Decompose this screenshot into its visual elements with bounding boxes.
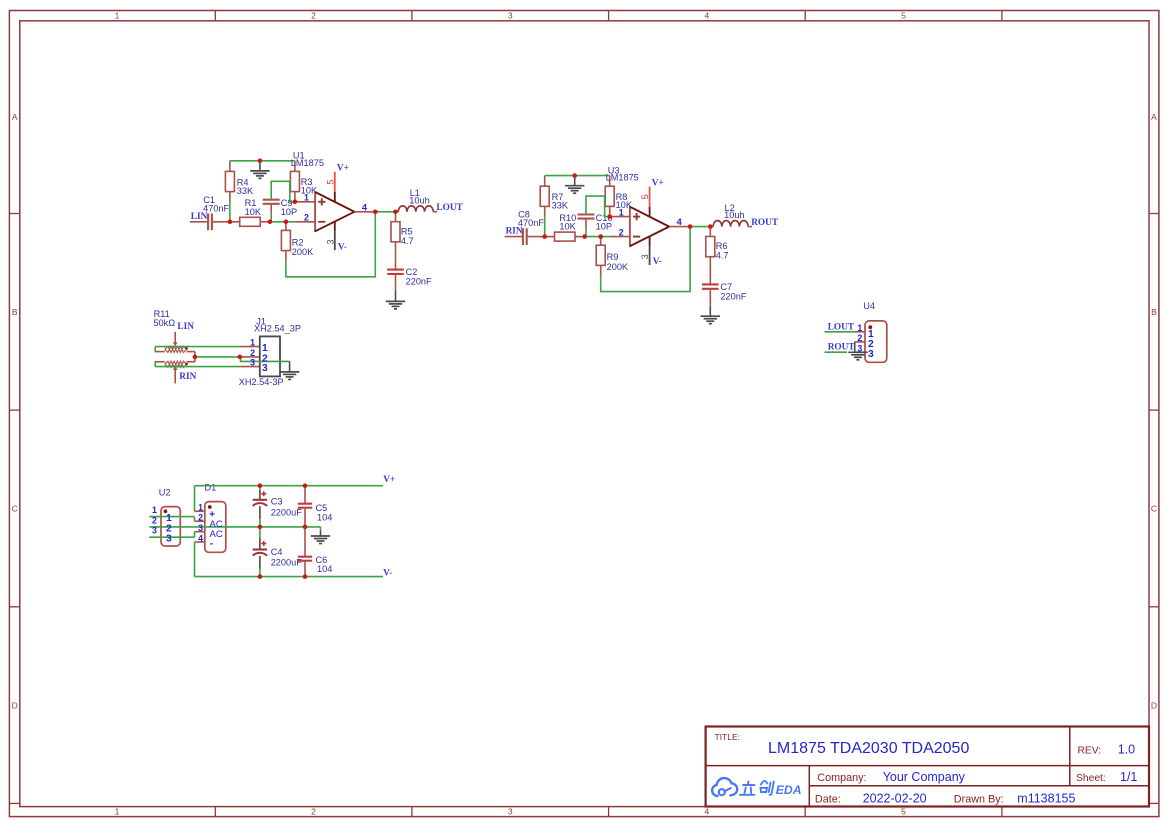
value 1.0 [1118,743,1135,757]
wire to ground [241,357,290,362]
svg-text:D: D [12,700,18,710]
junction [303,574,308,579]
svg-text:220nF: 220nF [406,277,432,287]
ground [311,531,330,544]
wire [229,202,231,222]
resistor R8 [605,176,633,217]
wire [259,527,261,550]
net label RIN [179,372,196,382]
svg-text:5: 5 [640,194,650,199]
svg-text:C: C [12,504,18,514]
svg-text:LOUT: LOUT [436,203,463,213]
bridge rectifier D1 [195,483,226,553]
junction [258,525,263,530]
op-amp U3 LM1875 [606,165,690,265]
pin number 2 [619,227,624,237]
wire [270,221,295,223]
connector U4 [855,301,887,362]
connector U2 [159,488,181,546]
wire [259,486,261,500]
capacitor C6 104 [298,527,333,577]
junction [373,210,378,215]
svg-text:V+: V+ [337,164,349,174]
pin number 3 [857,343,862,353]
wire [259,556,261,577]
junction [572,173,577,178]
wire [259,506,261,527]
svg-text:C2: C2 [406,267,418,277]
svg-text:3: 3 [166,534,172,545]
pin number 4 [362,202,368,212]
svg-text:50kΩ: 50kΩ [153,318,175,328]
logo text LiChuang EDA [740,781,802,797]
svg-text:Date:: Date: [815,794,841,806]
pin name 2 [868,339,874,350]
capacitor C7 [702,282,747,306]
pin name 1 [868,329,874,340]
pin number 1 [304,193,309,203]
net label V+ [383,475,395,485]
svg-text:2200uF: 2200uF [271,558,303,568]
wire top rail LIN [230,160,295,162]
junction [393,210,398,215]
net label ROUT [828,342,856,352]
svg-text:1: 1 [857,323,862,333]
svg-text:LOUT: LOUT [828,322,855,332]
pin number 3 [152,526,157,536]
svg-text:5: 5 [901,807,906,817]
net label V+ [652,178,664,188]
resistor R9 [596,237,629,277]
pin name 1 [262,343,268,354]
svg-text:200K: 200K [292,247,314,257]
pin number 4 [198,533,203,543]
svg-text:A: A [1151,112,1157,122]
svg-text:3: 3 [857,343,862,353]
pin name 1 [166,513,172,524]
svg-text:C3: C3 [271,496,283,506]
wire [270,214,272,222]
pin number 3 [198,523,203,533]
svg-text:Drawn By:: Drawn By: [954,794,1004,806]
junction [258,483,263,488]
net label LIN [191,212,208,222]
svg-text:1: 1 [198,503,203,513]
junction [284,220,289,225]
net label LIN [177,322,194,332]
junction [708,224,713,229]
net label V- [653,257,662,267]
pin number 2 [857,333,862,343]
svg-text:10K: 10K [245,207,262,217]
svg-text:LM1875: LM1875 [606,173,639,183]
svg-text:R9: R9 [607,252,619,262]
junction [258,574,263,579]
svg-text:5: 5 [901,11,906,21]
svg-text:RIN: RIN [179,372,196,382]
svg-text:104: 104 [317,512,332,522]
svg-text:m1138155: m1138155 [1017,792,1075,806]
svg-text:2: 2 [304,213,309,223]
net label V+ [337,164,349,174]
pin name - [210,538,214,549]
wire D1 plus to V+ rail [194,486,196,512]
svg-text:1.0: 1.0 [1118,743,1135,757]
junction [303,525,308,530]
svg-text:2200uF: 2200uF [271,508,303,518]
svg-text:4: 4 [362,202,368,212]
wire top rail RIN [545,175,610,177]
svg-text:4.7: 4.7 [401,236,414,246]
svg-text:B: B [1151,307,1157,317]
svg-text:EDA: EDA [776,783,802,797]
wire to ground [320,527,322,531]
svg-text:4: 4 [677,217,683,227]
op-amp U1 LM1875 [291,151,375,251]
svg-text:1: 1 [619,207,624,217]
wire [271,181,295,202]
svg-text:3: 3 [250,358,255,368]
connector J1 XH2.54_3P [239,316,301,387]
label Company: [817,772,866,784]
net label LOUT [828,322,855,332]
label Drawn By: [954,794,1004,806]
svg-text:2: 2 [152,515,157,525]
wire [585,229,587,237]
wire U2 pin1 to D1 AC [149,517,194,522]
svg-text:V-: V- [653,257,662,267]
svg-text:220nF: 220nF [720,291,746,301]
capacitor C4 2200uF [253,541,303,568]
svg-text:U4: U4 [863,301,875,311]
junction [258,159,263,164]
wire V- rail [195,576,384,578]
wire ROUT [825,351,848,353]
svg-text:3: 3 [198,523,203,533]
svg-text:1: 1 [304,193,309,203]
wire wiper to J1 pin2 [195,356,240,358]
svg-text:B: B [12,307,18,317]
resistor R7 [540,176,569,217]
pin name + [209,509,215,520]
junction [268,220,273,225]
ground [848,352,867,360]
svg-text:LM1875 TDA2030 TDA2050: LM1875 TDA2030 TDA2050 [768,740,969,757]
pin number 2 [250,348,255,358]
svg-text:Your Company: Your Company [883,770,966,784]
svg-text:5: 5 [325,179,335,184]
wire [585,236,610,238]
svg-text:10uh: 10uh [409,195,429,205]
title LM1875 TDA2030 TDA2050 [768,740,969,757]
svg-text:1: 1 [115,807,120,817]
svg-text:LM1875: LM1875 [291,158,324,168]
svg-text:3: 3 [508,11,513,21]
svg-text:4: 4 [705,807,710,817]
svg-text:LIN: LIN [191,212,208,222]
svg-text:D: D [1151,700,1157,710]
pin name 3 [166,534,172,545]
svg-text:3: 3 [325,239,335,244]
wire V+ rail [195,485,384,487]
svg-text:2: 2 [619,227,624,237]
svg-text:33K: 33K [552,201,569,211]
wire [154,347,156,367]
svg-text:1: 1 [250,338,255,348]
resistor R3 [290,161,318,202]
svg-text:V+: V+ [383,475,395,485]
junction [542,234,547,239]
pin name 2 [262,354,268,365]
svg-text:V-: V- [338,242,347,252]
resistor R1 [230,198,270,226]
wire RIN to J1 pin3 [155,366,240,368]
svg-text:R5: R5 [401,226,413,236]
wire LOUT [825,331,855,333]
pin number 2 [198,513,203,523]
value m1138155 [1017,792,1075,806]
svg-text:3: 3 [868,349,874,360]
capacitor C3 2200uF [253,491,303,517]
ground [565,176,584,194]
net label RIN [506,227,523,237]
capacitor C10 [578,213,613,232]
svg-text:2: 2 [250,348,255,358]
svg-text:Sheet:: Sheet: [1076,773,1106,784]
svg-text:2022-02-20: 2022-02-20 [863,792,927,806]
svg-text:1/1: 1/1 [1120,770,1137,784]
svg-text:R2: R2 [292,237,304,247]
label REV: [1078,746,1102,757]
svg-text:U2: U2 [159,488,171,498]
wire D1 minus to V- rail [194,542,196,577]
wire [544,216,546,236]
junction [193,355,198,360]
svg-text:2: 2 [311,807,316,817]
junction [582,234,587,239]
svg-text:ROUT: ROUT [828,342,856,352]
wire [854,342,856,352]
ground [250,161,269,179]
svg-text:2: 2 [198,513,203,523]
svg-text:3: 3 [508,807,513,817]
wire [586,196,610,217]
svg-text:10uh: 10uh [724,210,744,220]
capacitor C5 104 [298,486,333,527]
svg-text:2: 2 [311,11,316,21]
junction [688,224,693,229]
svg-text:TITLE:: TITLE: [715,732,741,742]
svg-text:4.7: 4.7 [716,251,729,261]
svg-text:ROUT: ROUT [751,218,779,228]
svg-text:33K: 33K [237,186,254,196]
wire center tap [149,526,320,528]
svg-text:104: 104 [317,564,332,574]
svg-text:LIN: LIN [177,322,194,332]
pin number 1 [857,323,862,333]
svg-text:C: C [1151,504,1157,514]
value Your Company [883,770,966,784]
pin number 2 [152,515,157,525]
svg-text:10K: 10K [559,222,576,232]
capacitor C9 [263,198,297,217]
svg-text:REV:: REV: [1078,746,1102,757]
label Sheet: [1076,773,1106,784]
capacitor C2 [387,267,432,291]
pin number 3 [250,358,255,368]
svg-text:4: 4 [198,533,203,543]
svg-text:3: 3 [152,526,157,536]
svg-text:2: 2 [857,333,862,343]
svg-text:-: - [210,538,214,549]
svg-text:D1: D1 [205,483,217,493]
junction [228,220,233,225]
wire LIN to J1 pin1 [155,346,240,348]
capacitor C1 [190,195,230,230]
svg-text:V-: V- [383,568,392,578]
junction [598,234,603,239]
ground [280,361,299,379]
pin number 1 [198,503,203,513]
resistor R5 [391,212,414,270]
svg-text:200K: 200K [607,262,629,272]
resistor R4 [225,161,254,202]
net label V- [338,242,347,252]
pin name 3 [868,349,874,360]
pin name 2 [166,523,172,534]
svg-text:Company:: Company: [817,772,866,784]
wire [194,352,196,362]
potentiometer R11 50kOhm [153,309,195,383]
svg-text:10P: 10P [281,207,297,217]
inductor L2 [710,203,752,227]
net label V- [383,568,392,578]
value 2022-02-20 [863,792,927,806]
svg-text:1: 1 [152,505,157,515]
junction [303,483,308,488]
ground [386,291,405,309]
wire [689,226,710,228]
pin name AC [210,519,223,530]
net label ROUT [751,218,779,228]
title block frame [706,727,1149,807]
svg-text:XH2.54_3P: XH2.54_3P [254,323,301,333]
svg-text:V+: V+ [652,178,664,188]
logo cloud icon [712,778,737,796]
svg-text:4: 4 [705,11,710,21]
pin number 2 [304,213,309,223]
inductor L1 [396,188,438,212]
resistor R6 [706,227,729,285]
wire feedback [286,212,375,277]
pin number 1 [619,207,624,217]
svg-text:10P: 10P [596,222,612,232]
pin name 3 [262,363,268,374]
label Date: [815,794,841,806]
svg-text:C7: C7 [720,282,732,292]
wire [374,211,395,213]
junction [293,200,298,205]
svg-text:XH2.54-3P: XH2.54-3P [239,377,284,387]
wire U2 pin3 to D1 AC [149,532,194,538]
svg-text:3: 3 [262,363,268,374]
pin number 1 [152,505,157,515]
svg-text:1: 1 [115,11,120,21]
capacitor C8 [505,210,545,245]
value 1/1 [1120,770,1137,784]
svg-text:R6: R6 [716,241,728,251]
wire feedback [601,227,690,292]
pin number 1 [250,338,255,348]
svg-text:RIN: RIN [506,227,523,237]
junction [238,355,243,360]
junction [607,214,612,219]
pin number 4 [677,217,683,227]
svg-text:3: 3 [640,254,650,259]
resistor R10 [545,213,585,241]
label TITLE: [715,732,741,742]
net label LOUT [436,203,463,213]
ground [701,306,720,324]
svg-text:C4: C4 [271,547,283,557]
svg-text:A: A [12,112,18,122]
pin name AC [210,529,223,540]
resistor R2 [281,222,314,262]
